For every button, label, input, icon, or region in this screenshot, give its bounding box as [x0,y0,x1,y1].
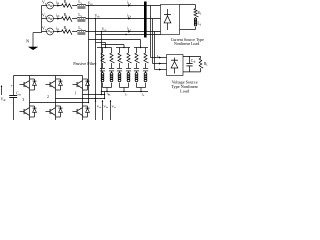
wire cap stub top [189,56,191,63]
wire filter pair3 top bar [134,47,148,49]
capacitor filter branch3 [117,67,122,69]
wire filter pair2 bottom bar [120,87,129,89]
wire phase a line [86,5,161,7]
wire filter branch6 bottom stub [145,83,147,88]
current arrow iLb [128,17,131,19]
resistor RL (VS load) [199,58,203,68]
wire CS load top [180,4,196,6]
junction rd2 [104,98,105,99]
wire filter branch5 mid [136,63,138,68]
wire filter rail [102,91,149,93]
capacitor filter branch1 [100,67,105,69]
AC source Va [47,2,54,9]
wire filter branch3 bottom stub [119,83,121,88]
junction a-bot [88,102,89,103]
wire filter branch3 stub [119,48,121,54]
wire filter feed bar2 [102,44,125,46]
wire CS load bottom [195,27,197,30]
junction feed3 [140,47,141,48]
diode CS rectifier [167,9,169,16]
wire Rs-Ls phase a [72,5,77,7]
wire phase b line [86,18,161,20]
diode VS rectifier [174,58,176,62]
arrow VS-load wire b [159,63,161,65]
wire neutral jog [33,32,42,34]
wire RL-L [195,17,197,18]
wire R stub bottom [200,68,202,72]
current arrow iLa [128,4,131,6]
wire source left stubs [42,5,47,7]
junction c-top [101,31,102,32]
resistor filter branch2 [110,53,115,63]
IGBT Q3 [73,84,78,86]
current arrow iLc [128,30,131,32]
resistor filter branch4 [127,53,132,63]
arrow Vfc [110,101,112,120]
wire inverter output 2 [56,98,105,100]
ground N [28,47,37,50]
inductor filter branch6 [144,73,147,76]
capacitor filter branch2 [109,67,114,69]
AC source Vb [47,15,54,22]
current arrow isa [57,4,60,6]
arrow Vfb [102,101,104,120]
extra routing line [96,34,161,36]
wire VS-load drop phase c [154,32,156,70]
arrow VS-load wire c [159,69,161,71]
wire filter branch5 mid2 [136,71,138,73]
IGBT Q1 [20,84,25,86]
wire filter branch2 bottom stub [111,83,113,88]
wire filter branch2 stub [111,48,113,54]
junction b-bot [95,98,96,99]
wire VS-load drop phase b [152,19,154,64]
IGBT Q2 [46,84,51,86]
wire filter pair1 drop [106,88,108,92]
wire inverter output 1 [83,94,105,96]
wire leg drop Q1 [29,76,31,80]
wire dc-link left top [13,76,15,96]
wire filter branch6 mid [145,63,147,68]
svg-text:2: 2 [47,95,49,99]
svg-text:Load: Load [180,88,190,93]
wire filter branch1 mid [102,63,104,68]
wire VS load top [183,55,201,57]
wire filter branch4 stub [128,48,130,54]
wire leg mid Q3-Q6 [82,90,84,106]
arrow on b wire [95,100,97,102]
wire filter branch5 stub [136,48,138,54]
junction [125,34,126,35]
junction c-bot [101,94,102,95]
wire leg drop Q2 [55,76,57,80]
IGBT Q4 [20,111,25,113]
wire filter pair1 top bar [97,47,112,49]
arrow Vdc [1,86,3,95]
capacitor filter branch6 [143,67,148,69]
wire neutral vertical [41,6,43,33]
wire VS-load drop phase a [150,6,152,58]
wire dc-link left bottom [13,98,15,121]
inductor Ls phase c [77,30,86,31]
wire filter branch1 bottom stub [102,83,104,88]
wire rail drop [104,92,106,99]
inductor filter branch5 [135,73,138,76]
wire phase c line [86,31,161,33]
wire leg mid Q1-Q4 [29,90,31,106]
junction feed2 [123,47,124,48]
wire filter pair1 bottom bar [103,87,112,89]
wire filter branch6 stub [145,48,147,54]
wire source-a to resistor [53,5,61,7]
wire filter pair3 drop [140,88,142,92]
wire source-c to resistor [53,31,61,33]
capacitor filter branch5 [134,67,139,69]
wire filter branch4 mid [128,63,130,68]
current arrow isb [57,17,60,19]
wire filter branch5 bottom stub [136,83,138,88]
wire filter branch4 mid2 [128,71,130,73]
wire R stub top [200,56,202,58]
wire Rs-Ls phase c [72,31,77,33]
wire leg bottom Q4 [29,117,31,120]
wire leg bottom Q6 [82,117,84,120]
inductor Ls phase a [77,4,86,5]
wire filter branch1 mid2 [102,71,104,73]
junction pair2 [123,91,124,92]
resistor filter branch3 [118,53,123,63]
resistor filter branch5 [135,53,140,63]
junction feed1 [105,47,106,48]
inductor Ls phase b [77,17,86,18]
wire filter branch3 mid2 [119,71,121,73]
resistor Rs phase b [62,17,73,22]
svg-text:Cdc: Cdc [191,59,197,64]
wire filter branch2 mid2 [111,71,113,73]
svg-text:Passive Filter: Passive Filter [73,61,97,66]
wire inverter top rail [14,75,83,77]
wire leg mid Q2-Q5 [55,90,57,106]
inductor Ld (CS load) [194,18,196,20]
wire filter branch1 stub [102,48,104,54]
capacitor Cdc (VS load) [186,63,192,65]
wire filter feed bar1 [96,42,106,44]
inductor filter branch2 [110,73,113,76]
wire leg bottom Q5 [55,117,57,120]
svg-text:+: + [10,84,12,88]
wire APF vertical a [88,6,90,103]
IGBT Q5 [46,111,51,113]
wire filter branch3 mid [119,63,121,68]
wire APF vertical c [101,32,103,95]
inductor filter branch1 [101,73,104,76]
wire filter branch4 bottom stub [128,83,130,88]
wire filter feed bar3 [89,39,141,41]
IGBT Q6 [73,111,78,113]
resistor RL (CS load) [194,9,199,18]
AC source Vc [47,28,54,35]
wire source-b to resistor [53,18,61,20]
PCC bus bar [144,2,147,38]
svg-text:N: N [26,38,29,43]
junction pair1 [106,91,107,92]
wire filter branch6 mid2 [145,71,147,73]
junction pair3 [140,91,141,92]
junction b-top [95,18,96,19]
wire cap stub bottom [189,66,191,72]
wire VS load bottom [183,71,201,73]
wire leg drop Q3 [82,76,84,80]
capacitor Cdc dc-link [9,95,17,97]
inductor filter branch4 [127,73,130,76]
wire filter pair2 top bar [116,47,130,49]
resistor filter branch1 [101,53,106,63]
wire filter branch2 mid [111,63,113,68]
arrow VS-load wire a [159,57,161,59]
svg-text:Nonlinear Load: Nonlinear Load [174,41,199,46]
svg-text:1: 1 [75,91,77,95]
rectifier box VS-load [167,55,184,76]
wire filter pair2 drop [123,88,125,92]
capacitor filter branch4 [126,67,131,69]
rectifier box CS-load [161,5,180,35]
wire inverter output 3 [30,102,89,104]
wire APF vertical b [95,19,97,121]
inductor filter branch3 [118,73,121,76]
wire filter pair3 bottom bar [137,87,146,89]
junction c-rail [101,91,102,92]
current arrow isc [57,30,60,32]
resistor Rs phase c [62,30,73,35]
junction rd1 [104,94,105,95]
junction a-top [88,5,89,6]
resistor filter branch6 [144,53,149,63]
svg-text:3: 3 [22,98,24,102]
resistor Rs phase a [62,4,73,9]
wire Rs-Ls phase b [72,18,77,20]
